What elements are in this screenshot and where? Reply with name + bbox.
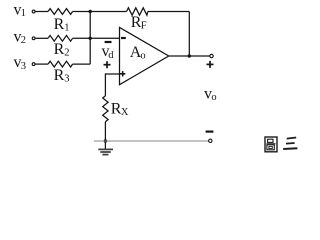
resistor R3 <box>48 61 73 84</box>
node A junction dot (v1 row) <box>89 10 92 13</box>
svg-text:o: o <box>211 92 216 103</box>
op-amp non-inverting input marker (inside) <box>120 71 125 76</box>
wire ground rail to negative output terminal (gray) <box>94 140 209 142</box>
node v3 input terminal <box>32 63 35 66</box>
op-amp U1 Ao triangle <box>120 27 169 84</box>
op-amp inverting input marker (inside) <box>121 37 126 39</box>
wire RX to ground <box>104 122 106 149</box>
svg-text:2: 2 <box>21 35 26 46</box>
node v1 input terminal <box>32 10 35 13</box>
圖 innermost box <box>269 146 272 148</box>
label minus (output polarity) <box>206 131 214 133</box>
wire v3 terminal to R3 <box>35 63 48 65</box>
wire input bus vertical <box>89 12 91 65</box>
svg-text:X: X <box>121 107 129 118</box>
wire node A to RF <box>90 11 126 13</box>
圖 inner top mouth <box>268 139 273 142</box>
svg-text:F: F <box>141 20 147 31</box>
svg-text:R: R <box>54 67 65 84</box>
svg-text:1: 1 <box>64 22 69 33</box>
svg-text:R: R <box>54 41 65 58</box>
svg-text:o: o <box>140 50 145 61</box>
label plus (output polarity) <box>207 61 214 68</box>
wire non-inverting input to RX <box>105 74 119 96</box>
wire RF to right vertical <box>148 11 190 13</box>
wire v1 terminal to R1 <box>35 11 48 13</box>
label vd minus sign <box>105 41 112 43</box>
wire R3 to bus corner <box>73 63 91 65</box>
node v2 input terminal <box>32 37 35 40</box>
caption 圖三 (figure three), drawn glyphs <box>265 137 297 152</box>
node vo- terminal <box>209 139 212 142</box>
svg-text:3: 3 <box>64 74 69 85</box>
wire v2 terminal to R2 <box>35 37 48 39</box>
node vo+ terminal <box>210 54 213 57</box>
svg-text:R: R <box>54 16 65 33</box>
label vd plus sign <box>104 61 111 68</box>
node junction dot (v2 row) <box>89 37 92 40</box>
圖 outer box <box>265 137 277 152</box>
svg-text:d: d <box>108 50 114 61</box>
svg-text:3: 3 <box>21 61 26 72</box>
svg-text:1: 1 <box>21 8 26 19</box>
node ground junction dot <box>104 139 107 142</box>
ground <box>98 149 113 154</box>
wire R1 to node A <box>73 11 91 13</box>
三 strokes <box>287 138 297 139</box>
node B output junction dot <box>188 54 191 57</box>
圖 inner middle bar <box>266 143 275 145</box>
resistor RF <box>127 8 148 32</box>
svg-text:2: 2 <box>64 48 69 59</box>
wire feedback vertical down to output node <box>188 12 190 57</box>
resistor RX <box>103 96 129 122</box>
wire op-amp output to node B <box>169 55 210 57</box>
resistor R2 <box>48 35 73 58</box>
resistor R1 <box>48 9 73 34</box>
wire R2 through bus to op-amp inverting input <box>73 37 120 39</box>
圖 inner bottom box <box>267 145 274 150</box>
